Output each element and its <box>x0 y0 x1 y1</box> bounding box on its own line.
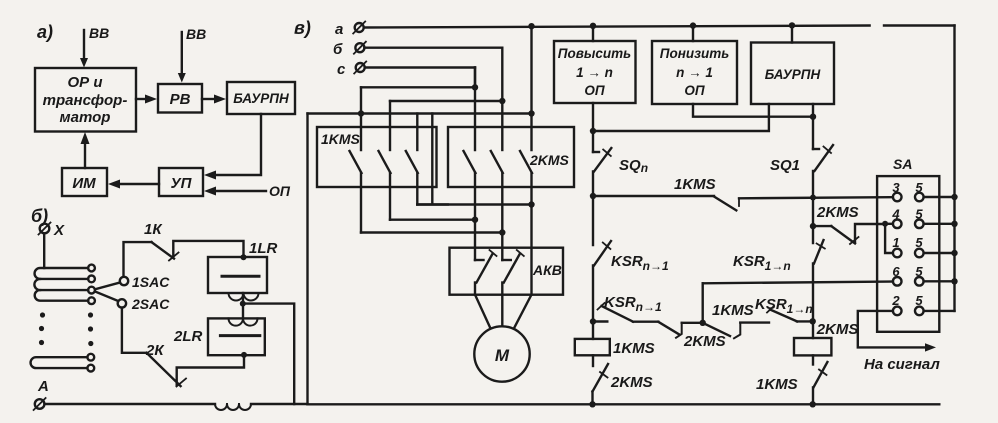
wire 1KMS branch with contact to SA terminal 3 <box>593 176 893 210</box>
junction dot BAURPN branch on left rail <box>590 128 596 134</box>
contactor group box 1KMS <box>317 127 437 187</box>
block Povysit 1->n OP <box>554 41 636 103</box>
svg-text:X: X <box>53 222 65 239</box>
motor M <box>474 326 529 381</box>
switch SQ1 <box>770 145 833 174</box>
block UP <box>159 168 203 196</box>
junction dot Ponizit branch on right rail <box>810 114 816 120</box>
svg-text:1KMS: 1KMS <box>674 176 716 193</box>
terminal X <box>39 222 66 239</box>
wire BAURPN down to UP with arrow <box>204 114 261 180</box>
svg-text:1К: 1К <box>144 221 163 238</box>
coil 1KMS <box>575 339 655 357</box>
1KMS contact 1 <box>350 87 362 232</box>
node between 1LR and 2LR <box>240 301 246 307</box>
svg-text:1LR: 1LR <box>249 240 278 257</box>
junction dot phase c drop <box>472 84 478 90</box>
2KMS contact 3 <box>520 26 532 294</box>
junction dot left rail on bottom bus <box>589 401 595 407</box>
switch 1K <box>124 221 179 277</box>
left rail continues to series node <box>592 266 594 339</box>
block Ponizit n->1 OP <box>652 41 737 104</box>
svg-text:1: 1 <box>892 235 899 250</box>
svg-text:5: 5 <box>915 264 923 279</box>
svg-text:Повысить: Повысить <box>558 46 631 61</box>
wire from series node to SA terminal 6 <box>703 282 893 284</box>
bottom loop tap circles <box>87 354 94 372</box>
block BAURPN (control) <box>751 43 834 105</box>
series row: contact 1KMS <box>703 302 754 338</box>
block BAURPN (upper) <box>227 82 295 114</box>
switch SQn <box>593 148 648 175</box>
wire BAURPN to left rail <box>593 104 769 131</box>
junction dots on wire y113.5 <box>358 110 535 116</box>
svg-text:На сигнал: На сигнал <box>864 356 940 373</box>
2KMS contact 1 <box>464 68 476 261</box>
wire bus to Ponizit <box>692 26 694 41</box>
svg-text:ОП: ОП <box>684 83 705 98</box>
svg-text:2KMS: 2KMS <box>610 374 653 391</box>
junction dot on c3 wire <box>528 201 534 207</box>
left control rail from Povysit <box>592 103 594 152</box>
wire to SA terminal 4 <box>885 223 893 225</box>
continuation dots left column <box>39 312 45 345</box>
contact KSRn-1 upper on left rail <box>594 241 669 273</box>
contactor group box 2KMS <box>448 127 574 187</box>
wire X down to winding <box>43 234 45 269</box>
selector contact 2SAC <box>95 292 170 313</box>
arrow RV to BAURPN <box>202 95 226 104</box>
svg-text:KSR1→n: KSR1→n <box>733 253 791 273</box>
bottom winding loop <box>31 357 88 368</box>
reactor 2LR <box>173 318 265 355</box>
1KMS contact 3 <box>406 114 418 205</box>
svg-text:5: 5 <box>915 235 923 250</box>
svg-text:2К: 2К <box>145 342 165 359</box>
junction dot right rail on bottom bus <box>810 401 816 407</box>
phase terminal b <box>333 41 366 58</box>
svg-text:KSR1→n: KSR1→n <box>755 296 813 316</box>
wire node to right rail of b) <box>243 304 294 404</box>
series row: wire up to node <box>682 322 703 324</box>
SA pin numbers right column <box>915 180 923 308</box>
svg-text:БАУРПН: БАУРПН <box>765 67 821 82</box>
svg-text:ОР и: ОР и <box>67 74 102 91</box>
junction dots on SA right rail <box>951 194 957 285</box>
contact KSR1-n upper on right rail <box>733 240 825 273</box>
block OR i transformator U1 <box>35 68 136 132</box>
svg-text:УП: УП <box>171 175 193 192</box>
series row: contact KSRn-1 lower <box>593 294 662 322</box>
switch block SA <box>877 156 939 332</box>
svg-text:б: б <box>333 41 343 58</box>
svg-text:2KMS: 2KMS <box>529 152 570 168</box>
block IM <box>62 168 107 196</box>
battery box AKB <box>450 248 564 295</box>
1KMS contact 2 <box>379 101 391 220</box>
selector contact 1SAC <box>95 274 170 290</box>
svg-text:2KMS: 2KMS <box>816 204 859 221</box>
2KMS contact 2 <box>491 101 503 260</box>
2KMS contact branch to SA <box>813 204 885 244</box>
wire down to SA terminal 1 <box>885 224 893 253</box>
continuation dots right column <box>88 312 94 346</box>
node at 2LR bottom <box>241 352 247 358</box>
junction dot on c1 wire <box>499 229 505 235</box>
arrow IM up to OR block <box>81 132 90 168</box>
svg-text:2LR: 2LR <box>173 328 203 345</box>
terminal A <box>34 378 49 410</box>
cross wire 1KMS c2 to 2KMS c1 <box>390 218 475 220</box>
SA terminal circles left column <box>893 193 902 316</box>
svg-text:3: 3 <box>892 180 900 195</box>
svg-text:А: А <box>37 378 49 395</box>
right control rail from BAURPN <box>812 104 814 149</box>
SA terminal circles right column <box>915 193 924 316</box>
svg-text:2SAC: 2SAC <box>131 296 170 312</box>
svg-text:а): а) <box>37 22 53 42</box>
svg-text:5: 5 <box>915 180 923 195</box>
svg-text:1KMS: 1KMS <box>321 131 361 147</box>
svg-text:АКВ: АКВ <box>532 262 562 278</box>
svg-text:ВВ: ВВ <box>186 26 206 42</box>
phase b wire <box>364 47 502 49</box>
wire phase c branch at y87 <box>361 68 475 88</box>
input BB arrow into OR block <box>80 25 109 68</box>
wire phase b branch at y101 <box>390 48 502 101</box>
svg-text:SQn: SQn <box>619 157 648 175</box>
svg-text:ИМ: ИМ <box>72 175 96 192</box>
arrow UP to IM <box>108 180 159 189</box>
svg-text:1KMS: 1KMS <box>712 302 754 319</box>
contact 1KMS below right coil <box>756 355 827 404</box>
SA right rail from top bus <box>953 26 955 311</box>
svg-text:М: М <box>495 346 510 365</box>
junction dot lower KSR1-n lands on right rail <box>810 318 816 324</box>
svg-text:4: 4 <box>891 207 900 222</box>
coil 2KMS <box>794 321 858 355</box>
contact 2KMS below left coil <box>593 355 653 404</box>
left rail continues below SQn <box>592 172 594 246</box>
svg-text:ОП: ОП <box>269 183 291 199</box>
svg-text:1SAC: 1SAC <box>132 274 170 290</box>
vertical linking series wire down to contact row <box>702 283 704 323</box>
svg-text:5: 5 <box>915 293 923 308</box>
cross wire 1KMS c1 to 2KMS c2 <box>361 231 502 233</box>
svg-text:2KMS: 2KMS <box>816 321 859 338</box>
bottom wire of b) with inductor <box>45 404 308 410</box>
cross wire 1KMS c3 to 2KMS c3 <box>417 203 531 205</box>
phase c wire <box>365 66 475 68</box>
svg-text:2KMS: 2KMS <box>683 333 726 350</box>
wire bus to BAURPN <box>791 25 793 42</box>
wire Ponizit to right rail <box>693 104 813 117</box>
svg-text:1KMS: 1KMS <box>756 376 798 393</box>
input OP arrow into UP <box>204 183 291 199</box>
right rail continues to coil <box>812 264 814 339</box>
AKB contact 1 <box>475 250 497 295</box>
input BB arrow into RV block <box>178 26 206 83</box>
series row: contact KSR1-n lower <box>755 296 813 321</box>
jumper stem between boxes <box>417 114 447 205</box>
svg-text:n → 1: n → 1 <box>676 65 713 80</box>
svg-text:матор: матор <box>60 109 111 126</box>
right rail continues below SQ1 <box>812 171 814 243</box>
junction dots on top bus <box>528 22 795 29</box>
AKB contact 2 <box>502 250 524 295</box>
winding tap circles <box>88 265 95 305</box>
motor leads <box>475 295 532 329</box>
junction dot on c2 wire <box>472 217 478 223</box>
phase terminal c <box>337 61 366 78</box>
svg-text:1KMS: 1KMS <box>613 340 655 357</box>
wire bus to Povysit <box>592 26 594 41</box>
svg-text:а: а <box>335 21 343 38</box>
wire 1LR bottom to 2LR top <box>242 293 244 318</box>
top bus right segment to SA rail <box>884 24 955 26</box>
svg-text:с: с <box>337 61 346 78</box>
junction dot series contact row <box>700 320 706 326</box>
block RV <box>158 84 202 113</box>
wire 2LR bottom to 2K fixed side <box>177 355 244 385</box>
svg-text:KSRn→1: KSRn→1 <box>611 253 669 273</box>
phase a top bus wire <box>364 26 870 28</box>
reactor 1LR <box>208 240 278 301</box>
bottom bus of section v) <box>308 403 940 405</box>
svg-text:6: 6 <box>892 264 900 279</box>
wire 1K to 1LR top <box>173 241 243 257</box>
left border rail of section v) <box>306 114 308 405</box>
svg-text:в): в) <box>294 18 311 38</box>
svg-text:РВ: РВ <box>170 91 191 108</box>
junction dot 1KMS line on right rail <box>810 195 816 201</box>
node at 1LR top <box>241 254 247 260</box>
junction dot 1KMS branch <box>590 193 596 199</box>
svg-text:2: 2 <box>891 293 900 308</box>
junction dot SA terminals 4-1 branch <box>882 221 888 227</box>
junction dot phase b drop <box>499 98 505 104</box>
series row: contact 2KMS <box>658 322 725 350</box>
tapped winding of transformer (serpentine with taps) <box>34 268 88 301</box>
svg-text:трансфор-: трансфор- <box>43 92 128 109</box>
svg-text:1 → n: 1 → n <box>576 65 613 80</box>
series row: wire after 1KMS <box>740 321 769 323</box>
SA right column stub wires <box>924 197 955 311</box>
phase terminal a <box>335 21 365 38</box>
svg-text:SA: SA <box>893 156 912 172</box>
svg-text:ОП: ОП <box>584 83 605 98</box>
svg-text:БАУРПН: БАУРПН <box>233 91 289 106</box>
svg-text:ВВ: ВВ <box>89 25 109 41</box>
junction dot 2KMS branch on right rail <box>810 223 816 229</box>
arrow OR to RV <box>136 95 157 104</box>
switch 2K <box>122 308 186 387</box>
wire SA terminal 2 to Na signal arrow <box>858 311 941 373</box>
series row: wire between <box>633 321 658 323</box>
SA pin numbers left column <box>891 180 900 308</box>
long wire y113.5 from left border <box>308 112 532 114</box>
svg-text:5: 5 <box>915 207 923 222</box>
svg-text:SQ1: SQ1 <box>770 157 800 174</box>
svg-text:Понизить: Понизить <box>660 46 730 61</box>
junction dot series row on left rail <box>590 318 596 324</box>
